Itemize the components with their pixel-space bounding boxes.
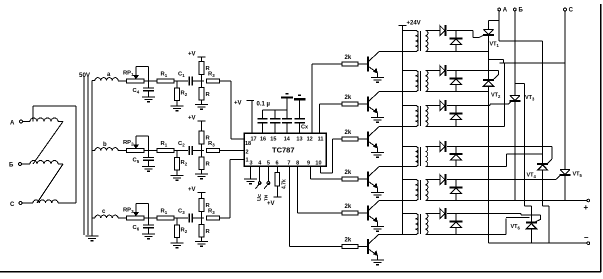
resistor 2k stage 4 [342,177,358,181]
wire h59 [489,59,504,61]
transistor Q1 [367,57,369,72]
capacitor C pin15 [274,110,276,119]
resistor 192.5 [207,216,220,220]
wire channel c to pin 1 [220,217,231,219]
thyristor VT6 [526,222,537,224]
wire v504 [504,63,506,127]
svg-text:VT4: VT4 [527,173,537,180]
wire VT5 cathode [564,175,566,200]
wire [174,80,188,82]
svg-text:C6: C6 [133,225,140,232]
resistor R1 [157,148,174,152]
diode D4b shunt [455,147,457,155]
svg-text:11: 11 [318,137,324,143]
svg-text:5: 5 [267,161,270,167]
svg-text:18: 18 [245,141,251,147]
ground emitter Q4 [371,192,384,194]
svg-text:VT5: VT5 [573,172,583,179]
svg-text:4.7k: 4.7k [282,179,288,189]
svg-text:VT3: VT3 [525,95,535,102]
secondary winding c [95,215,118,218]
bus C down [564,11,566,170]
transformer T6 secondary [425,214,428,235]
wire A right [499,40,543,42]
svg-text:R1: R1 [161,141,168,148]
capacitor C3 [188,214,190,223]
wire pin 11 to stage 2 [318,104,320,133]
wire [192,80,199,82]
output minus terminal [587,242,590,245]
op-amp U1 TC787 IC body [244,133,326,166]
ground under C6 [142,233,155,235]
capacitor C4 [148,81,150,88]
transformer T1 primary [403,30,416,32]
resistor R pull-up [201,144,203,151]
transistor Q6 [367,239,369,254]
svg-text:VT1: VT1 [490,42,500,49]
wire T4 to VT4 gate [447,146,552,148]
transformer T2 secondary [425,71,428,92]
svg-text:9: 9 [307,161,310,167]
wire VT2 anode down to minus [488,86,490,243]
resistor R2 shunt [176,218,178,225]
cap bus [263,109,287,111]
wire T6 to VT6 gate [447,213,521,215]
transformer T5 core [417,180,419,200]
svg-text:13: 13 [296,137,302,143]
resistor R pull-down [201,218,203,225]
+V supply [201,121,203,131]
ground emitter Q5 [371,226,384,228]
wire T1 secondary bottom [425,51,488,53]
+24V bus [402,26,404,235]
svg-text:A: A [10,121,15,127]
resistor R pull-down [201,81,203,88]
wire pin 9 to stage 4 [309,166,311,179]
svg-text:+V: +V [188,116,196,122]
diode D6a series [440,209,445,218]
wire T6 anode branch [506,217,530,219]
wire T6 secondary bottom [425,234,506,236]
svg-text:Cx: Cx [301,125,309,131]
thyristor VT3 [510,95,520,97]
svg-text:RP2: RP2 [123,140,134,147]
resistor R2 shunt [176,81,178,88]
svg-text:R1: R1 [161,209,168,216]
transformer T5 secondary [425,180,428,201]
svg-text:C: C [10,202,15,208]
svg-text:+V: +V [267,201,275,207]
ground under R2 [171,242,184,244]
transformer T3 secondary [425,106,428,127]
thyristor VT2 [483,79,494,81]
wire pin 8 to stage 5 [297,166,299,213]
diode D2a series [440,66,445,75]
wire phase to pot [118,217,127,219]
wire C [22,202,33,204]
svg-text:50V: 50V [79,72,91,79]
bus B lower [514,101,516,200]
svg-text:+V: +V [234,101,242,107]
resistor R3 [207,148,220,152]
+24V supply [399,25,407,27]
capacitor C6 [148,218,150,225]
resistor 2k stage 1 [342,62,358,66]
svg-text:+V: +V [188,187,196,193]
svg-text:VT2: VT2 [491,93,501,100]
svg-text:+V: +V [188,52,196,58]
svg-text:10: 10 [315,161,321,167]
wire cross h63 [500,62,566,64]
secondary bus [91,81,93,237]
resistor R1 [157,79,174,83]
transformer T4 core [417,147,419,166]
diode D6b shunt [455,214,457,222]
ground under R2 [171,175,184,177]
transformer T2 primary [403,70,416,72]
wire [192,150,199,152]
diode D3b shunt [455,106,457,114]
svg-text:16: 16 [260,137,266,143]
capacitor Cx pin13 [299,100,301,118]
wire delta A-B [33,122,63,165]
transformer T1 core [417,31,419,51]
svg-text:C2: C2 [178,141,185,148]
potentiometer RP2 [127,148,145,152]
resistor 2k stage 5 [342,211,358,215]
svg-text:C5: C5 [133,158,140,165]
ground under C5 [142,166,155,168]
svg-text:2: 2 [246,150,249,156]
transformer core [83,76,85,235]
diode D2b shunt [455,71,457,79]
wire [192,217,199,219]
svg-text:Б: Б [519,8,524,14]
supply tap 2 [294,98,306,100]
diode D3a series [440,101,445,110]
wire VT6 anode down [530,229,532,244]
wire phase to pot [118,150,127,152]
svg-text:C4: C4 [133,88,140,95]
ground pin 3 [250,166,252,179]
svg-text:2k: 2k [345,95,352,101]
capacitor C pin14 [286,99,288,119]
resistor R3 [207,79,220,83]
ground under pull-down [195,173,208,175]
secondary winding a [95,78,118,81]
wire VT1 cathode chain [488,35,490,80]
resistor R pull-up [201,75,203,82]
transformer T2 core [417,71,419,91]
transformer T6 primary [403,213,416,215]
capacitor C1 [188,77,190,86]
resistor R1 [157,216,174,220]
diode D4a series [440,142,445,151]
wire VT4 anode [542,170,544,206]
svg-text:R2: R2 [181,160,188,167]
svg-text:8: 8 [296,161,299,167]
transformer T5 primary [403,179,416,181]
svg-text:2k: 2k [345,238,352,244]
resistor R pull-up [201,212,203,219]
resistor 2k stage 6 [342,244,358,248]
wire pin 12 to stage 1 [311,64,313,133]
diode D5a series [440,175,445,184]
wire A down [498,11,500,41]
resistor R pull-down [201,151,203,158]
svg-text:2k: 2k [345,204,352,210]
svg-text:RP3: RP3 [123,208,134,215]
svg-text:0.1 µ: 0.1 µ [257,102,271,108]
primary winding B [30,161,58,165]
wire T1 to VT1 gate [447,30,473,32]
thyristor VT4 [537,163,548,165]
svg-text:3: 3 [250,161,253,167]
thyristor VT1 [484,29,494,31]
svg-text:1: 1 [246,158,249,164]
svg-text:R3: R3 [208,72,215,79]
svg-text:Б: Б [9,163,14,169]
svg-text:C1: C1 [178,72,185,79]
svg-text:2k: 2k [345,170,352,176]
output plus terminal [587,199,590,202]
ground under pull-down [195,104,208,106]
svg-text:TC787: TC787 [272,146,295,155]
wire phase to pot [118,80,127,82]
wire T5 secondary bottom plus rail [425,200,587,202]
ground secondary neutral [86,235,99,237]
wire B [21,163,30,165]
secondary winding b [95,148,118,151]
diode D1b shunt [455,31,457,39]
resistor 2k stage 3 [342,137,358,141]
wire channel a to pin 18 [220,80,232,82]
wire [174,150,188,152]
svg-text:Uс: Uс [257,194,263,201]
svg-text:C: C [569,8,574,14]
svg-text:VT6: VT6 [511,224,521,231]
svg-text:17: 17 [251,137,257,143]
ground emitter Q6 [371,259,384,261]
border frame bottom [0,271,601,273]
transformer T4 secondary [425,147,428,167]
primary winding A [30,118,58,122]
border frame right [600,4,602,272]
transformer T6 core [417,214,419,234]
terminal phase B [513,8,516,11]
+V pin 6 [273,196,281,198]
svg-text:15: 15 [270,137,276,143]
wire A chain down [542,41,544,164]
svg-text:14: 14 [284,137,291,143]
wire delta B-C [37,164,63,203]
svg-text:2k: 2k [345,130,352,136]
wire T3 secondary bottom [425,126,504,128]
svg-text:+24V: +24V [407,21,421,27]
svg-text:–: – [584,233,589,242]
svg-text:A: A [503,8,508,14]
transistor Q4 [367,172,369,187]
transformer T3 core [417,106,419,126]
svg-text:12: 12 [307,137,313,143]
wire to v524 [515,83,525,85]
node pin 4 input [259,166,261,182]
ground under pull-down [195,241,208,243]
svg-text:R2: R2 [181,228,188,235]
wire delta close [75,106,77,203]
wire T5 to VT5 gate [447,179,556,181]
wire A to VT1 [489,19,500,21]
svg-text:RP1: RP1 [123,71,134,78]
transistor Q5 [367,206,369,221]
wire A top loop [32,106,34,122]
potentiometer RP3 [127,216,145,220]
svg-text:R1: R1 [161,72,168,79]
capacitor C pin16 [262,110,264,119]
resistor 4.7k pin 6 [276,166,278,172]
wire T2 secondary bottom [425,91,488,93]
transformer T3 primary [403,105,416,107]
transistor Q2 [367,97,369,112]
wire [174,217,188,219]
svg-text:C3: C3 [178,209,185,216]
wire T3 to VT3 gate [447,105,490,107]
svg-text:R2: R2 [181,91,188,98]
transformer T4 primary [403,146,416,148]
+V supply [201,57,203,62]
wire A [22,121,30,123]
svg-text:+: + [584,203,589,212]
svg-text:7: 7 [287,161,290,167]
bus B down [514,11,516,96]
terminal phase C [564,8,567,11]
resistor 2k stage 2 [342,102,358,106]
svg-text:6: 6 [276,161,279,167]
ground emitter Q3 [371,152,384,154]
ground under R2 [171,105,184,107]
wire v524 jog [525,205,532,207]
ground emitter Q1 [371,77,384,79]
diode D5b shunt [455,180,457,188]
ground emitter Q2 [371,117,384,119]
wire pin 7 to stage 6 [289,166,291,247]
svg-text:R3: R3 [208,141,215,148]
+V supply [201,193,203,199]
transformer T1 secondary [425,31,428,52]
svg-text:R3: R3 [208,209,215,216]
capacitor C2 [188,146,190,155]
capacitor C5 [148,151,150,158]
svg-text:b: b [103,142,107,148]
svg-text:2k: 2k [345,55,352,61]
primary winding C [33,200,58,203]
wire pin 10 to stage 3 [319,166,321,173]
wire T4 secondary bottom [425,166,506,168]
thyristor VT5 [560,169,570,171]
transistor Q3 [367,132,369,147]
diode D1a series [440,26,445,35]
output minus rail [489,242,588,244]
potentiometer RP1 [127,79,145,83]
node pin 5 input [267,166,269,182]
wire channel b to pin 2 [220,150,245,152]
ground under C4 [142,96,155,98]
supply tap 1 [281,96,293,98]
wire T2 to VT2 gate [447,70,499,72]
resistor R2 shunt [176,151,178,158]
terminal phase A [498,8,501,11]
